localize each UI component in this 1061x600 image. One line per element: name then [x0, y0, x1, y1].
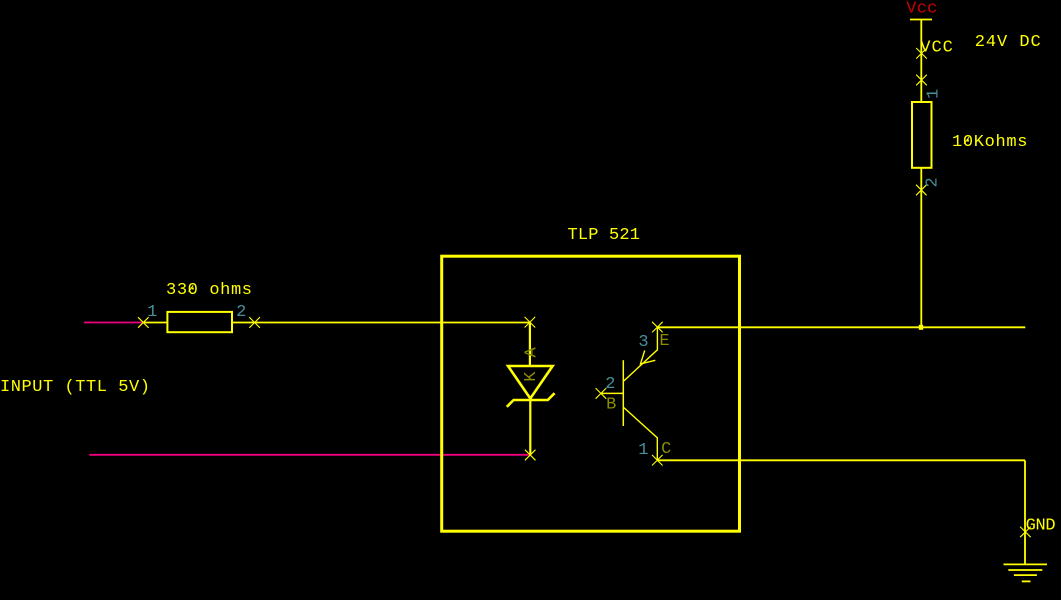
- svg-text:GND: GND: [1026, 517, 1056, 536]
- svg-text:24V DC: 24V DC: [975, 33, 1041, 52]
- svg-text:2: 2: [605, 375, 615, 394]
- svg-text:B: B: [606, 396, 616, 415]
- svg-text:1: 1: [924, 89, 943, 99]
- svg-text:C: C: [661, 440, 671, 459]
- svg-text:A: A: [523, 347, 542, 358]
- svg-text:TLP 521: TLP 521: [568, 226, 641, 245]
- svg-text:3: 3: [638, 333, 648, 352]
- svg-text:1: 1: [638, 441, 648, 460]
- svg-text:E: E: [659, 332, 669, 351]
- svg-text:2: 2: [924, 177, 943, 187]
- svg-text:VCC: VCC: [920, 38, 953, 57]
- svg-text:330 ohms: 330 ohms: [166, 281, 252, 300]
- svg-text:K: K: [522, 371, 541, 382]
- svg-text:1: 1: [147, 303, 157, 322]
- svg-text:10Kohms: 10Kohms: [952, 133, 1028, 152]
- svg-text:2: 2: [236, 303, 246, 322]
- svg-text:INPUT (TTL 5V): INPUT (TTL 5V): [0, 378, 150, 397]
- svg-text:Vcc: Vcc: [906, 0, 937, 18]
